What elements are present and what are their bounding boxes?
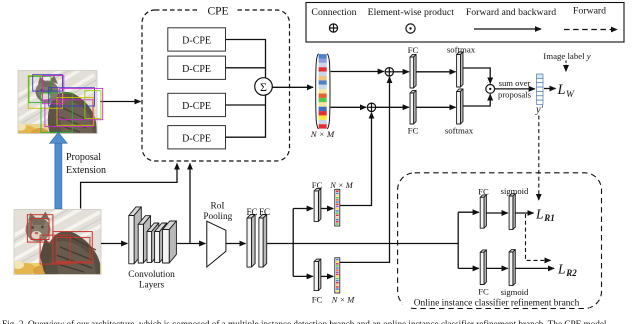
- wire mini FC to mini matrix upper: [321, 208, 333, 210]
- D-CPE box 4: [168, 126, 226, 149]
- wire sigmoid to Lr1: [515, 212, 533, 214]
- svg-text:Proposal: Proposal: [66, 152, 101, 163]
- dashed wire image label to Lw: [565, 61, 567, 72]
- wire softmax lower to product: [463, 94, 490, 106]
- svg-text:CPE: CPE: [207, 6, 228, 18]
- svg-text:FC: FC: [478, 286, 489, 296]
- svg-text:Image label y: Image label y: [543, 51, 590, 61]
- svg-text:L: L: [557, 82, 566, 98]
- wire product to y': [495, 88, 535, 90]
- wire D-CPE1 to bus: [226, 40, 266, 79]
- svg-text:RoI: RoI: [211, 202, 225, 212]
- legend solid arrow: [474, 28, 541, 30]
- svg-text:Forward: Forward: [573, 6, 606, 17]
- wire refine FC to sigmoid lower: [486, 267, 507, 269]
- svg-text:proposals: proposals: [498, 90, 532, 100]
- svg-text:sigmoid: sigmoid: [501, 186, 529, 196]
- softmax slab lower stream: [457, 89, 463, 124]
- wire sigma to score matrix: [272, 86, 313, 88]
- dashed wire Lr1 supervises Lr2: [526, 214, 551, 260]
- wire refine FC to sigmoid upper: [486, 212, 507, 214]
- refine sigmoid slab lower: [509, 250, 515, 286]
- CPE module dashed box: [142, 10, 290, 161]
- mini branch bus: [292, 209, 294, 277]
- wire y' to Lw: [544, 88, 556, 90]
- mini score matrix upper: [335, 189, 340, 226]
- svg-text:softmax: softmax: [445, 126, 474, 136]
- refine fc slab upper: [480, 195, 486, 228]
- wire mini matrix lower to upper plus: [340, 77, 390, 262]
- wire matrix to lower plus: [331, 106, 367, 108]
- wire image to conv: [101, 243, 127, 245]
- svg-text:D-CPE: D-CPE: [182, 64, 211, 75]
- D-CPE box 1: [168, 28, 226, 51]
- extended-proposal cat image (top): [8, 66, 112, 148]
- svg-text:R2: R2: [565, 268, 577, 278]
- conv layer slab 3: [147, 223, 159, 262]
- conv layer slab 2: [138, 216, 150, 263]
- legend element-wise product symbol (circled dot): [406, 24, 415, 33]
- svg-text:D-CPE: D-CPE: [182, 101, 211, 112]
- svg-text:FC: FC: [408, 45, 419, 55]
- svg-text:D-CPE: D-CPE: [182, 36, 211, 47]
- softmax slab upper stream: [457, 52, 463, 87]
- svg-text:Layers: Layers: [139, 280, 165, 290]
- wire extended image into CPE: [100, 101, 141, 103]
- D-CPE box 3: [168, 93, 226, 116]
- conv layer slab 4: [155, 223, 167, 262]
- wire mini matrix upper to lower plus: [340, 113, 372, 206]
- RoI pooling trapezoid: [207, 221, 226, 267]
- wire D-CPE2 to bus: [226, 67, 266, 69]
- svg-text:Forward and backward: Forward and backward: [466, 7, 556, 18]
- fc slab A: [247, 215, 255, 268]
- wire FC to softmax upper: [416, 71, 455, 73]
- svg-text:Fig. 2. Overview of our archit: Fig. 2. Overview of our architecture, wh…: [2, 319, 607, 324]
- wire bus to refine FC upper: [458, 211, 479, 213]
- svg-text:N × M: N × M: [331, 296, 355, 305]
- lower connection node (plus): [367, 103, 375, 111]
- wire matrix to upper plus: [331, 71, 384, 73]
- legend dashed arrow: [564, 29, 617, 31]
- svg-text:FC: FC: [478, 186, 489, 196]
- wire bus to upper mini FC: [293, 208, 313, 210]
- wire sigmoid to Lr2: [515, 267, 554, 269]
- original-proposal cat image (bottom): [4, 204, 118, 288]
- extended proposal boxes (colored): [28, 75, 103, 133]
- svg-text:N × M: N × M: [310, 129, 335, 139]
- refine fc slab lower: [480, 250, 486, 285]
- fc slab B: [259, 215, 267, 268]
- svg-text:R1: R1: [543, 213, 555, 223]
- legend connection symbol (circled plus): [329, 24, 337, 32]
- fc slab upper stream: [410, 54, 416, 88]
- svg-text:Convolution: Convolution: [128, 270, 175, 280]
- summation node: [255, 78, 273, 96]
- svg-text:Extension: Extension: [66, 165, 106, 176]
- svg-text:N × M: N × M: [329, 181, 353, 190]
- wire bus to refine FC lower: [458, 267, 479, 269]
- element-wise product node: [486, 85, 495, 94]
- legend box: [306, 3, 624, 43]
- mini fc slab lower: [314, 259, 321, 291]
- svg-text:softmax: softmax: [447, 45, 476, 55]
- dashed wire y' to Lr1: [538, 116, 540, 201]
- proposal extension blue arrow: [50, 132, 67, 208]
- svg-text:Online instance classifier ref: Online instance classifier refinement br…: [414, 298, 580, 309]
- D-CPE box 2: [168, 56, 226, 79]
- main wire to refinement branch: [267, 243, 458, 245]
- svg-text:y′: y′: [535, 105, 544, 116]
- wire bus to lower mini FC: [293, 275, 313, 277]
- svg-text:L: L: [557, 262, 566, 277]
- svg-text:FC: FC: [312, 295, 323, 305]
- score matrix cells: [319, 54, 327, 129]
- svg-text:sigmoid: sigmoid: [501, 287, 529, 297]
- wire softmax upper to product: [463, 68, 490, 84]
- svg-text:D-CPE: D-CPE: [182, 133, 211, 144]
- svg-text:Element-wise product: Element-wise product: [368, 7, 455, 18]
- svg-text:FC: FC: [246, 207, 257, 217]
- score matrix parentheses: [316, 54, 330, 129]
- refinement bus: [457, 212, 459, 268]
- svg-text:sum over: sum over: [499, 78, 531, 88]
- conv layer slab 5: [163, 221, 177, 263]
- original proposal boxes (red): [27, 215, 92, 264]
- wire mini FC to mini matrix lower: [321, 275, 333, 277]
- wire D-CPE4 to bus: [226, 95, 266, 137]
- svg-text:FC: FC: [312, 180, 323, 190]
- fc slab lower stream: [410, 90, 416, 124]
- wire proposals into CPE (L path): [81, 164, 177, 209]
- wire RoI to FC: [226, 243, 246, 245]
- svg-text:FC: FC: [259, 207, 270, 217]
- mini score matrix lower: [335, 258, 340, 293]
- wire D-CPE3 to bus: [226, 104, 266, 106]
- conv layer slab 1: [129, 207, 142, 264]
- svg-text:Σ: Σ: [260, 80, 267, 94]
- svg-text:FC: FC: [408, 126, 419, 136]
- svg-text:W: W: [566, 90, 575, 100]
- wire FC to softmax lower: [416, 106, 455, 108]
- upper connection node (plus): [385, 68, 393, 76]
- wire upper plus to FC: [394, 71, 409, 73]
- refine sigmoid slab upper: [509, 194, 515, 230]
- wire conv to RoI: [177, 243, 205, 245]
- wire lower plus to FC: [376, 106, 409, 108]
- svg-text:Connection: Connection: [311, 7, 356, 18]
- svg-text:Pooling: Pooling: [203, 212, 232, 222]
- wire features into CPE: [189, 164, 191, 244]
- y-prime vector cells: [537, 74, 544, 105]
- svg-text:L: L: [535, 207, 544, 222]
- mini fc slab upper: [314, 188, 321, 221]
- online refinement dashed box: [398, 173, 602, 309]
